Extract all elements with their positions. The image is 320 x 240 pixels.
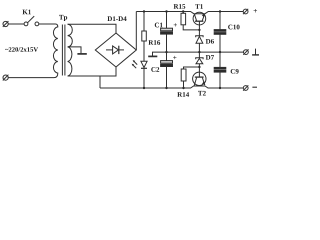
zener diode D6	[198, 30, 200, 36]
LED arrow 2	[133, 65, 137, 69]
transformer Tp secondary winding	[68, 24, 73, 76]
capacitor C9	[219, 52, 221, 67]
wire	[39, 23, 56, 25]
node dot T1 base	[198, 29, 200, 31]
diode inside bridge	[106, 49, 113, 51]
chassis ground bar (center tap)	[77, 53, 86, 55]
resistor R14	[183, 81, 185, 88]
wire middle rail	[153, 52, 244, 56]
junction dots middle rail	[165, 51, 167, 53]
input terminal top ~220	[3, 21, 8, 26]
transformer Tp primary winding	[53, 24, 57, 78]
wire secondary top to bridge	[68, 24, 116, 33]
resistor R15	[182, 12, 184, 14]
label ~220/2x15V	[5, 47, 38, 51]
bridge rectifier D1-D4 diamond	[95, 33, 136, 67]
input terminal bottom	[3, 75, 8, 80]
junction dots top rail	[143, 10, 145, 12]
wire bottom rail	[100, 86, 243, 88]
resistor R16	[143, 12, 145, 32]
capacitor C2	[166, 52, 168, 61]
wire	[8, 23, 24, 25]
chassis ground bar (middle rail)	[148, 55, 157, 57]
ground symbol	[255, 49, 257, 55]
transistor T2	[193, 72, 206, 85]
wire bridge + riser to top rail	[135, 12, 137, 51]
transistor T1	[193, 12, 206, 25]
output terminal -	[243, 86, 248, 91]
output terminal common	[244, 50, 249, 55]
transformer core	[61, 25, 63, 76]
wire secondary bottom to bridge	[68, 67, 116, 76]
capacitor C10	[219, 12, 221, 30]
wire riser to bottom rail	[99, 76, 101, 88]
capacitor C1	[166, 12, 168, 29]
LED indicator diode	[141, 61, 147, 67]
zener diode D7	[198, 52, 200, 58]
output terminal +	[243, 9, 248, 14]
switch K1	[24, 22, 28, 26]
node dot T2 base	[198, 66, 200, 68]
center tap wire	[68, 47, 81, 53]
wire top rail	[136, 12, 243, 14]
junction dots bottom rail	[143, 87, 145, 89]
wire	[8, 77, 54, 79]
LED arrow 1	[134, 61, 138, 65]
